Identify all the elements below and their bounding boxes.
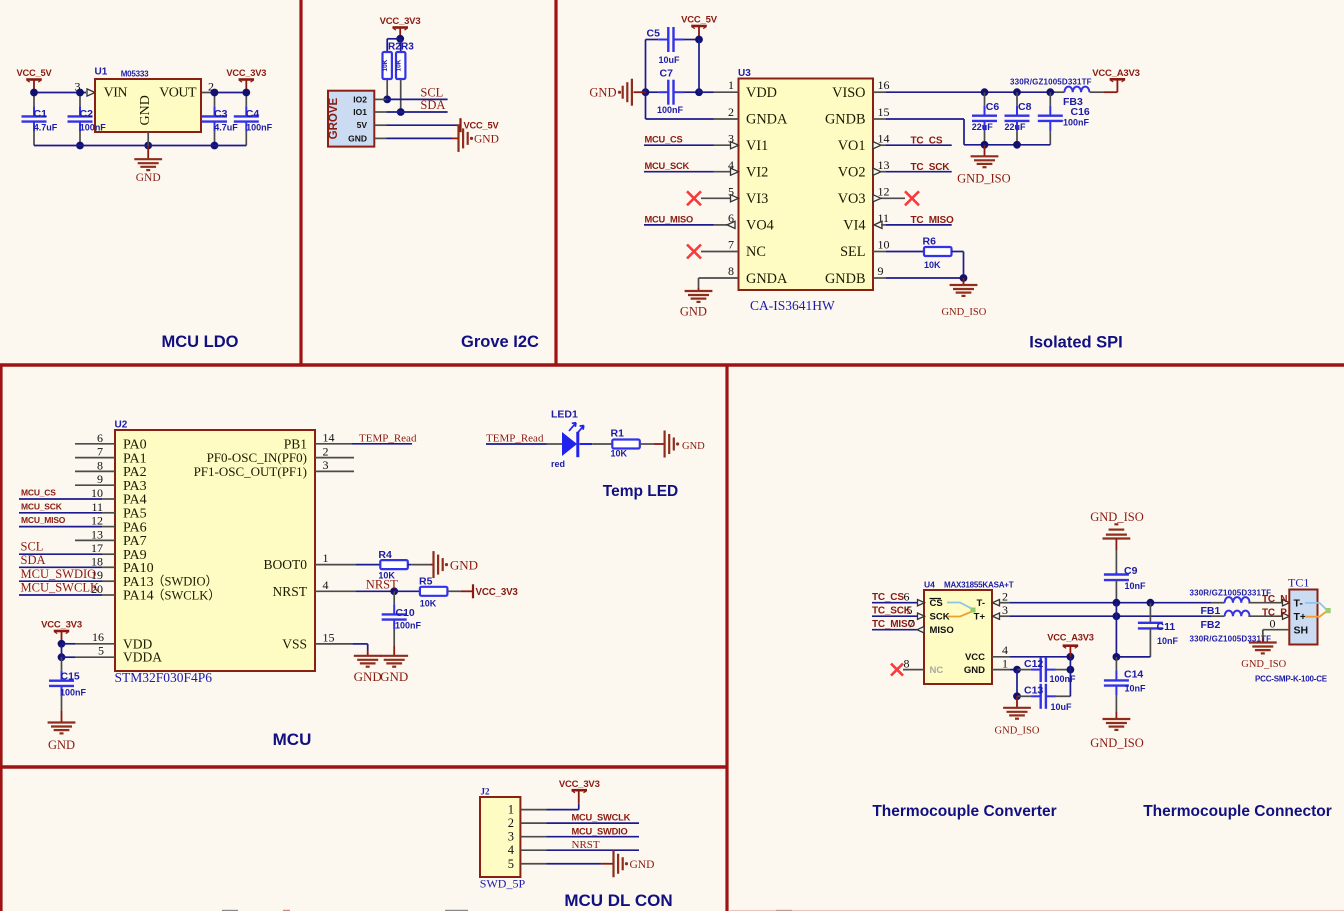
svg-text:VO1: VO1: [838, 138, 866, 154]
svg-text:STM32F030F4P6: STM32F030F4P6: [115, 670, 213, 685]
svg-text:CS: CS: [930, 598, 943, 609]
svg-text:MCU: MCU: [273, 730, 312, 749]
svg-text:4: 4: [508, 843, 515, 857]
svg-text:3: 3: [508, 830, 514, 844]
svg-text:PA13: PA13: [123, 575, 154, 590]
svg-text:C11: C11: [1157, 621, 1176, 633]
svg-text:TC1: TC1: [1288, 576, 1309, 590]
svg-text:FB1: FB1: [1201, 605, 1221, 617]
svg-text:1: 1: [323, 551, 329, 565]
svg-text:VI3: VI3: [746, 191, 768, 207]
svg-text:PA3: PA3: [123, 479, 147, 494]
svg-text:T-: T-: [977, 598, 985, 609]
svg-text:MCU_SWDIO: MCU_SWDIO: [21, 567, 97, 581]
svg-text:VCC_5V: VCC_5V: [17, 68, 53, 78]
svg-text:VCC_A3V3: VCC_A3V3: [1092, 68, 1140, 79]
svg-text:U2: U2: [115, 420, 128, 431]
svg-text:10uF: 10uF: [659, 55, 681, 65]
svg-text:R3: R3: [401, 42, 414, 53]
svg-text:GND: GND: [48, 738, 75, 752]
svg-text:PA1: PA1: [123, 451, 147, 466]
svg-text:GNDB: GNDB: [825, 271, 866, 287]
svg-text:VO2: VO2: [838, 165, 866, 181]
svg-text:C7: C7: [660, 68, 674, 80]
svg-text:GND: GND: [680, 305, 707, 319]
svg-text:VI2: VI2: [746, 165, 768, 181]
svg-text:MCU_MISO: MCU_MISO: [21, 515, 66, 525]
svg-text:C6: C6: [986, 101, 1000, 113]
svg-text:VDDA: VDDA: [123, 650, 162, 665]
svg-text:R1: R1: [611, 427, 625, 439]
svg-text:GND: GND: [589, 86, 616, 100]
svg-text:GNDA: GNDA: [746, 111, 788, 127]
svg-text:100nF: 100nF: [60, 688, 87, 698]
svg-text:NRST: NRST: [272, 584, 307, 599]
svg-text:15: 15: [323, 630, 335, 644]
svg-text:GND: GND: [136, 172, 161, 184]
svg-text:MCU_SCK: MCU_SCK: [21, 501, 63, 511]
svg-text:C10: C10: [396, 607, 415, 619]
svg-text:TC_CS: TC_CS: [872, 592, 904, 603]
svg-text:2: 2: [323, 444, 329, 458]
svg-text:13: 13: [91, 527, 103, 541]
svg-text:C5: C5: [647, 28, 661, 40]
svg-text:100nF: 100nF: [395, 621, 422, 631]
svg-text:C14: C14: [1124, 669, 1143, 681]
svg-text:VO4: VO4: [746, 218, 774, 234]
svg-text:C4: C4: [246, 108, 260, 120]
svg-text:T-: T-: [1294, 597, 1304, 609]
svg-text:TC_N: TC_N: [1262, 594, 1287, 605]
svg-text:100nF: 100nF: [1050, 674, 1077, 684]
svg-text:GND_ISO: GND_ISO: [1090, 736, 1143, 750]
svg-text:1: 1: [1002, 657, 1008, 671]
svg-text:1: 1: [508, 803, 514, 817]
svg-text:3: 3: [323, 458, 329, 472]
svg-text:GND_ISO: GND_ISO: [941, 307, 986, 318]
svg-text:SEL: SEL: [840, 244, 865, 260]
svg-text:2: 2: [508, 816, 514, 830]
svg-text:Thermocouple Converter: Thermocouple Converter: [872, 803, 1056, 820]
svg-text:C1: C1: [34, 108, 48, 120]
svg-text:5: 5: [98, 644, 104, 658]
svg-text:GND_ISO: GND_ISO: [1090, 510, 1143, 524]
svg-text:7: 7: [908, 617, 914, 631]
svg-text:PA14: PA14: [123, 589, 154, 604]
svg-text:C12: C12: [1024, 658, 1043, 670]
svg-text:2: 2: [1002, 590, 1008, 604]
svg-text:FB2: FB2: [1201, 619, 1221, 631]
svg-text:16: 16: [92, 630, 104, 644]
svg-text:SDA: SDA: [21, 553, 46, 567]
svg-text:17: 17: [91, 541, 103, 555]
svg-text:red: red: [551, 459, 565, 469]
svg-text:8: 8: [904, 657, 910, 671]
svg-text:SDA: SDA: [420, 98, 445, 112]
svg-text:C13: C13: [1024, 685, 1043, 697]
svg-text:PA4: PA4: [123, 493, 147, 508]
svg-text:MCU DL CON: MCU DL CON: [564, 891, 672, 910]
svg-text:R6: R6: [923, 236, 937, 248]
svg-text:PB1: PB1: [284, 436, 307, 451]
svg-text:GROVE: GROVE: [328, 98, 340, 140]
svg-text:5: 5: [508, 857, 514, 871]
svg-text:GNDA: GNDA: [746, 271, 788, 287]
svg-text:MAX31855KASA+T: MAX31855KASA+T: [944, 581, 1014, 590]
svg-text:VO3: VO3: [838, 191, 866, 207]
svg-text:LED1: LED1: [551, 409, 578, 421]
svg-text:100nF: 100nF: [657, 105, 684, 115]
svg-text:R4: R4: [378, 549, 392, 561]
svg-text:PA0: PA0: [123, 438, 147, 453]
svg-text:0: 0: [1270, 617, 1276, 631]
svg-text:4: 4: [1002, 643, 1008, 657]
svg-text:GND: GND: [964, 665, 985, 676]
svg-text:MCU_MISO: MCU_MISO: [645, 214, 694, 224]
svg-text:GND: GND: [380, 669, 408, 684]
svg-text:MCU_CS: MCU_CS: [645, 135, 683, 145]
svg-text:MCU_SWCLK: MCU_SWCLK: [21, 581, 99, 595]
svg-text:PCC-SMP-K-100-CE: PCC-SMP-K-100-CE: [1255, 675, 1328, 684]
svg-text:T+: T+: [974, 612, 986, 623]
svg-text:（SWDIO）: （SWDIO）: [152, 575, 218, 589]
svg-text:GND: GND: [630, 859, 655, 871]
svg-text:4: 4: [323, 578, 329, 592]
svg-text:SCL: SCL: [21, 540, 44, 554]
svg-text:PF0-OSC_IN(PF0): PF0-OSC_IN(PF0): [207, 450, 307, 465]
svg-text:C16: C16: [1071, 106, 1090, 118]
svg-text:GND: GND: [682, 441, 705, 452]
svg-text:NC: NC: [930, 665, 944, 676]
svg-text:10nF: 10nF: [1157, 636, 1179, 646]
svg-text:R5: R5: [419, 576, 433, 588]
svg-text:6: 6: [97, 431, 103, 445]
svg-text:VCC_3V3: VCC_3V3: [41, 620, 82, 631]
svg-text:VCC_A3V3: VCC_A3V3: [1047, 633, 1093, 643]
svg-text:9: 9: [878, 264, 884, 278]
svg-text:GND_ISO: GND_ISO: [1241, 659, 1286, 670]
svg-text:Thermocouple Connector: Thermocouple Connector: [1143, 803, 1332, 820]
svg-text:7: 7: [728, 238, 734, 252]
svg-text:100nF: 100nF: [246, 123, 273, 133]
svg-text:T+: T+: [1294, 611, 1307, 623]
svg-text:10nF: 10nF: [1125, 684, 1147, 694]
svg-text:VOUT: VOUT: [159, 86, 197, 101]
svg-text:PF1-OSC_OUT(PF1): PF1-OSC_OUT(PF1): [194, 464, 307, 479]
svg-text:8: 8: [728, 264, 734, 278]
svg-text:3: 3: [1002, 603, 1008, 617]
svg-text:14: 14: [323, 431, 335, 445]
svg-text:GND_ISO: GND_ISO: [995, 726, 1040, 737]
svg-text:BOOT0: BOOT0: [264, 557, 308, 572]
svg-text:SWD_5P: SWD_5P: [480, 877, 526, 891]
svg-text:VCC_3V3: VCC_3V3: [226, 68, 266, 78]
svg-text:C9: C9: [1124, 565, 1138, 577]
svg-text:VIN: VIN: [104, 86, 128, 101]
svg-text:7: 7: [97, 445, 103, 459]
svg-text:J2: J2: [481, 787, 491, 797]
svg-text:9: 9: [97, 472, 103, 486]
svg-text:10K: 10K: [924, 260, 941, 270]
svg-text:330R/GZ1005D331TF: 330R/GZ1005D331TF: [1190, 589, 1272, 598]
svg-text:12: 12: [91, 514, 103, 528]
svg-text:GND: GND: [354, 669, 382, 684]
svg-text:PA5: PA5: [123, 507, 147, 522]
svg-text:（SWCLK）: （SWCLK）: [152, 589, 221, 603]
svg-text:22uF: 22uF: [972, 122, 994, 132]
svg-text:C8: C8: [1018, 101, 1032, 113]
svg-text:U3: U3: [738, 68, 751, 79]
svg-text:2: 2: [728, 105, 734, 119]
svg-text:PA10: PA10: [123, 561, 154, 576]
svg-text:10K: 10K: [420, 599, 437, 609]
svg-text:10K: 10K: [396, 59, 403, 71]
svg-text:VCC_5V: VCC_5V: [464, 121, 500, 131]
svg-text:14: 14: [878, 131, 890, 145]
svg-text:PA6: PA6: [123, 520, 147, 535]
svg-text:MCU_CS: MCU_CS: [21, 488, 56, 498]
svg-text:VDD: VDD: [746, 85, 777, 101]
svg-text:GND_ISO: GND_ISO: [957, 172, 1010, 186]
svg-text:GNDB: GNDB: [825, 111, 866, 127]
svg-text:SH: SH: [1294, 624, 1309, 636]
svg-text:10K: 10K: [611, 449, 628, 459]
svg-text:10uF: 10uF: [1051, 702, 1073, 712]
svg-text:C3: C3: [214, 108, 228, 120]
svg-text:VCC_3V3: VCC_3V3: [380, 16, 421, 27]
svg-text:11: 11: [91, 500, 103, 514]
svg-text:GND: GND: [348, 133, 367, 143]
svg-text:100nF: 100nF: [80, 123, 107, 133]
svg-text:MCU_SWCLK: MCU_SWCLK: [572, 813, 631, 823]
svg-text:8: 8: [97, 458, 103, 472]
svg-text:C2: C2: [80, 108, 94, 120]
svg-text:VSS: VSS: [282, 636, 307, 651]
svg-text:GND: GND: [474, 134, 499, 146]
svg-text:15: 15: [878, 105, 890, 119]
svg-text:MCU_SCK: MCU_SCK: [645, 161, 690, 171]
svg-text:TEMP_Read: TEMP_Read: [359, 432, 417, 444]
svg-text:U1: U1: [95, 67, 108, 78]
svg-text:CA-IS3641HW: CA-IS3641HW: [750, 298, 835, 313]
svg-text:13: 13: [878, 158, 890, 172]
svg-text:4.7uF: 4.7uF: [34, 123, 58, 133]
svg-text:Isolated SPI: Isolated SPI: [1029, 334, 1123, 352]
svg-text:IO1: IO1: [353, 107, 367, 117]
svg-text:MCU_SWDIO: MCU_SWDIO: [572, 826, 628, 836]
svg-text:VCC_3V3: VCC_3V3: [559, 779, 600, 790]
svg-text:Temp LED: Temp LED: [603, 483, 679, 500]
svg-text:PA7: PA7: [123, 534, 147, 549]
svg-text:10: 10: [91, 486, 103, 500]
svg-text:22uF: 22uF: [1005, 122, 1027, 132]
svg-text:GND: GND: [450, 558, 478, 573]
svg-text:M05333: M05333: [121, 69, 149, 78]
svg-text:330R/GZ1005D331TF: 330R/GZ1005D331TF: [1010, 77, 1092, 86]
svg-text:NC: NC: [746, 244, 766, 260]
svg-text:GND: GND: [138, 95, 153, 125]
svg-text:VI1: VI1: [746, 138, 768, 154]
svg-text:IO2: IO2: [353, 94, 367, 104]
svg-text:5V: 5V: [357, 120, 368, 130]
svg-text:TEMP_Read: TEMP_Read: [486, 432, 544, 444]
svg-text:5: 5: [907, 603, 913, 617]
svg-text:VCC_3V3: VCC_3V3: [476, 587, 519, 598]
svg-text:VCC_5V: VCC_5V: [681, 15, 718, 26]
svg-text:R2: R2: [388, 42, 401, 53]
svg-text:U4: U4: [924, 580, 935, 590]
svg-text:10nF: 10nF: [1125, 581, 1147, 591]
svg-text:VI4: VI4: [843, 218, 865, 234]
svg-text:NRST: NRST: [572, 839, 600, 851]
svg-text:10K: 10K: [382, 59, 389, 71]
svg-text:100nF: 100nF: [1063, 118, 1090, 128]
svg-text:VCC: VCC: [965, 652, 985, 663]
svg-text:4.7uF: 4.7uF: [214, 123, 238, 133]
svg-text:16: 16: [878, 78, 890, 92]
svg-text:12: 12: [878, 184, 890, 198]
svg-text:NRST: NRST: [366, 578, 398, 592]
svg-text:10: 10: [878, 238, 890, 252]
svg-text:1: 1: [728, 78, 734, 92]
svg-text:PA2: PA2: [123, 465, 147, 480]
svg-text:VISO: VISO: [832, 85, 865, 101]
svg-text:C15: C15: [61, 671, 80, 683]
svg-text:Grove I2C: Grove I2C: [461, 333, 539, 351]
svg-text:6: 6: [904, 590, 910, 604]
svg-text:MCU LDO: MCU LDO: [162, 333, 239, 351]
svg-text:MISO: MISO: [930, 625, 954, 636]
svg-text:SCK: SCK: [930, 612, 950, 623]
